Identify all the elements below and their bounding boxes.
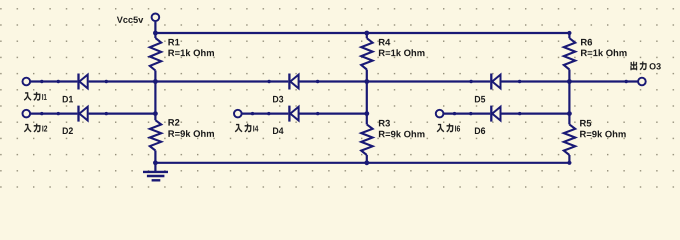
- resistor R1: [150, 38, 214, 71]
- diode D6: [475, 106, 501, 135]
- input port I6: [436, 110, 460, 132]
- junction: ground bus / R3: [364, 160, 369, 165]
- wire vertex dots row1: [40, 80, 628, 83]
- junction: node3 row2: [567, 111, 572, 116]
- wire: row1 input I1 to D1: [30, 80, 77, 82]
- wire: column B vertical (node2): [366, 33, 368, 163]
- wire: column C vertical (node3): [568, 33, 570, 163]
- input port I1: [23, 78, 47, 101]
- junction: node1 row1: [153, 79, 158, 84]
- junction: node3 row1: [567, 79, 572, 84]
- wire: row2 D4 to node2: [300, 112, 367, 114]
- wire: row1 D1 to D3: [89, 80, 289, 82]
- corner: Vcc bus / R6: [567, 31, 571, 35]
- wire: row2 D6 to node3: [501, 112, 569, 114]
- junction: Vcc bus / R4: [364, 31, 369, 36]
- wire: Vcc stub: [154, 22, 156, 33]
- resistor R6: [564, 38, 627, 69]
- wire: row1 D5 to output: [501, 80, 638, 82]
- junction: node2 row1: [364, 79, 369, 84]
- wire: row2 input I2 to D2: [30, 112, 77, 114]
- diode D2: [63, 106, 88, 134]
- junction: node1 row2: [153, 111, 158, 116]
- resistor R5: [564, 120, 626, 155]
- output port O3: [631, 62, 661, 86]
- diode D3: [273, 74, 299, 103]
- wire: column A vertical (node1): [154, 33, 156, 163]
- wire: top Vcc bus: [155, 32, 569, 34]
- wire: row2 input I6 to D6: [444, 112, 490, 114]
- junction: ground bus / R2: [153, 160, 158, 165]
- resistor R2: [150, 119, 214, 151]
- wire: row1 D3 to D5: [300, 80, 491, 82]
- wire vertex dots row2: [40, 112, 521, 115]
- resistor R3: [361, 120, 424, 155]
- diode D1: [63, 74, 88, 103]
- input port I2: [23, 110, 48, 132]
- wire: row2 D2 to node1: [89, 112, 156, 114]
- diode D4: [273, 106, 299, 134]
- ground: [143, 163, 168, 181]
- resistor R4: [361, 38, 424, 69]
- wire: row2 input I4 to D4: [242, 112, 288, 114]
- diode D5: [475, 74, 501, 103]
- power port Vcc5v: [117, 13, 159, 23]
- input port I4: [234, 110, 258, 132]
- junction: node2 row2: [364, 111, 369, 116]
- corner: ground bus / R5: [567, 161, 571, 165]
- wire: bottom ground bus: [155, 162, 569, 164]
- junction: Vcc bus / R1: [153, 31, 158, 36]
